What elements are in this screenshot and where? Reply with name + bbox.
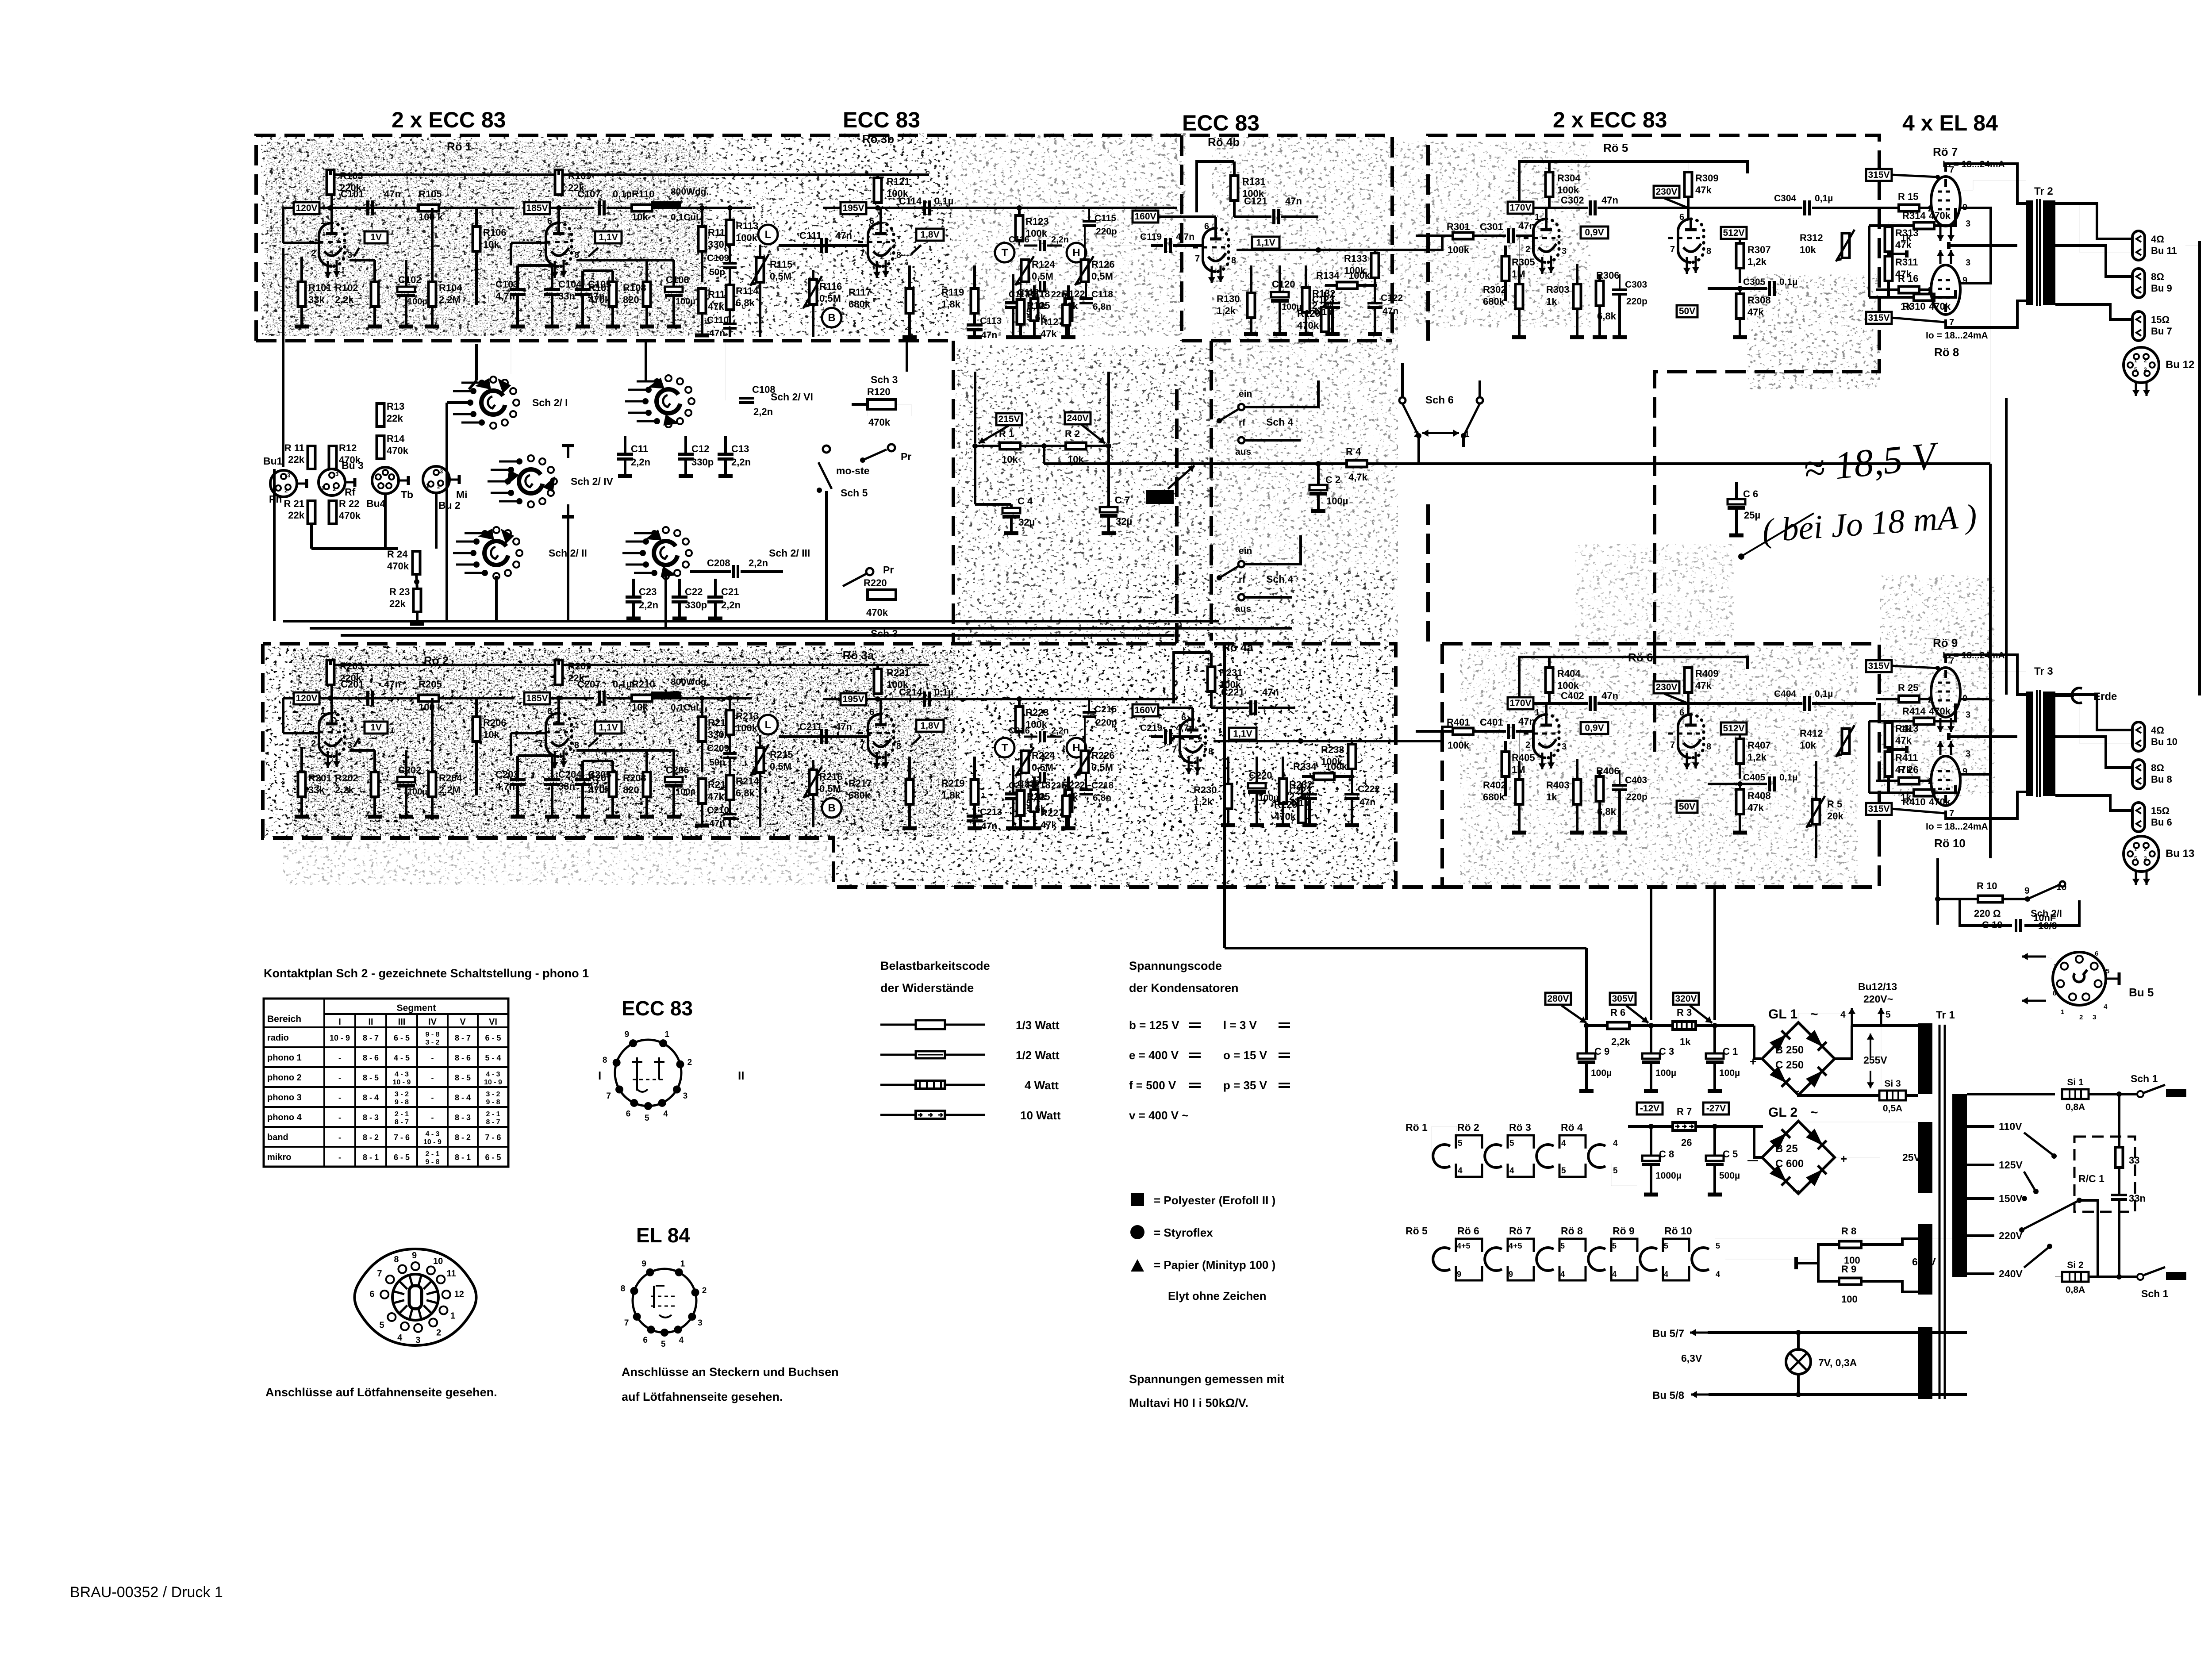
rotary switch Sch 2/VI	[657, 389, 680, 413]
capacitor C11	[617, 453, 633, 456]
dashed box Ro5/Ro6 left wall	[1428, 135, 1879, 341]
resistor R118	[1031, 299, 1038, 321]
resistor R413	[1885, 722, 1893, 747]
switch Sch1 bottom	[2137, 1274, 2143, 1280]
svg-text:C 600: C 600	[1775, 1158, 1804, 1170]
svg-text:0,1µ: 0,1µ	[1291, 798, 1309, 808]
triode Ro3b	[868, 223, 881, 266]
svg-text:10 - 9: 10 - 9	[423, 1138, 442, 1146]
svg-text:10k: 10k	[1800, 244, 1816, 255]
svg-text:C405: C405	[1743, 772, 1766, 783]
triode Ro2 first half	[319, 713, 332, 757]
triode Ro6 second	[1678, 715, 1691, 758]
svg-text:0,5M: 0,5M	[1032, 271, 1053, 282]
resistor R133	[1371, 253, 1379, 278]
svg-text:7: 7	[1670, 740, 1675, 750]
svg-text:C108: C108	[752, 384, 776, 395]
svg-text:Bu 13: Bu 13	[2166, 848, 2194, 860]
svg-text:C305: C305	[1743, 277, 1766, 287]
svg-text:5: 5	[1509, 1139, 1514, 1148]
svg-text:R412: R412	[1800, 728, 1823, 739]
svg-text:R307: R307	[1747, 244, 1771, 255]
svg-text:R115: R115	[770, 259, 792, 270]
svg-text:R133: R133	[1344, 253, 1367, 264]
svg-text:47n: 47n	[1359, 797, 1375, 807]
svg-text:4: 4	[397, 1333, 403, 1343]
svg-text:C11: C11	[631, 443, 648, 454]
svg-text:250V: 250V	[1149, 492, 1171, 502]
potentiometer R126	[1081, 260, 1089, 282]
svg-text:Elyt ohne Zeichen: Elyt ohne Zeichen	[1168, 1289, 1267, 1303]
svg-text:6 - 5: 6 - 5	[485, 1034, 501, 1042]
svg-text:R204: R204	[439, 772, 462, 784]
svg-text:1: 1	[426, 482, 429, 489]
svg-text:100µ: 100µ	[1719, 1068, 1740, 1078]
svg-text:0,9V: 0,9V	[1585, 723, 1604, 733]
svg-text:-: -	[431, 1053, 434, 1062]
svg-text:R205: R205	[419, 679, 442, 690]
svg-text:3: 3	[1966, 219, 1970, 229]
resistor R303	[1574, 284, 1581, 309]
svg-text:0,5M: 0,5M	[819, 293, 841, 304]
svg-text:280V: 280V	[1547, 994, 1569, 1004]
svg-text:5: 5	[2134, 855, 2137, 861]
svg-text:2: 2	[333, 486, 336, 492]
dashed box Ro1 bottom edge	[256, 339, 953, 342]
resistor R308	[1736, 294, 1744, 319]
svg-text:-: -	[431, 1093, 434, 1102]
resistor R221	[874, 669, 882, 694]
svg-text:C121: C121	[1244, 196, 1267, 207]
resistor R6	[1607, 1022, 1629, 1029]
voltage 215V	[996, 413, 1022, 425]
connector Bu 13	[2124, 836, 2159, 872]
triode Ro4a	[1180, 719, 1193, 763]
svg-text:Kontaktplan Sch 2 - gezeich: Kontaktplan Sch 2 - gezeichnete Schaltst…	[264, 967, 589, 980]
resistor R1	[1000, 443, 1020, 450]
svg-text:C 10: C 10	[1982, 919, 2002, 930]
svg-text:C110: C110	[707, 315, 729, 325]
svg-text:6: 6	[869, 216, 874, 226]
wire plate2	[1946, 301, 2026, 327]
svg-text:1: 1	[320, 707, 325, 716]
capacitor C210	[723, 813, 737, 815]
svg-text:8 - 3: 8 - 3	[455, 1113, 471, 1122]
resistor R108	[643, 282, 651, 307]
potentiometer R5 lower	[1813, 799, 1820, 824]
svg-text:C222: C222	[1358, 784, 1380, 794]
wire R105 to right	[439, 697, 515, 699]
wire long rail 250V	[1044, 462, 1990, 465]
wire top loop Ro4b	[1197, 161, 1234, 212]
capacitor C6	[1735, 482, 1738, 499]
svg-text:4+5: 4+5	[1509, 1241, 1522, 1250]
letter circle T	[995, 738, 1014, 757]
capacitor C101	[366, 200, 369, 215]
svg-text:Io = 18...24mA: Io = 18...24mA	[1926, 822, 1988, 832]
coil 800Wdg	[651, 692, 681, 697]
switch Sch3 upper: resistor R120	[868, 400, 896, 409]
svg-text:8 - 4: 8 - 4	[363, 1093, 379, 1102]
svg-text:100µ: 100µ	[1655, 1068, 1676, 1078]
svg-text:25V: 25V	[1902, 1152, 1921, 1163]
capacitor C103	[510, 288, 526, 291]
svg-text:6,8k: 6,8k	[1597, 806, 1617, 817]
svg-text:6: 6	[1204, 222, 1209, 231]
svg-text:C120: C120	[1272, 279, 1295, 290]
svg-text:GL 1: GL 1	[1768, 1007, 1797, 1022]
svg-text:Bu 10: Bu 10	[2151, 736, 2177, 747]
capacitor C108	[739, 397, 754, 400]
svg-text:3: 3	[2093, 1014, 2096, 1021]
svg-text:0,8A: 0,8A	[2066, 1285, 2085, 1295]
svg-text:820: 820	[623, 784, 639, 795]
svg-text:0,1CuL: 0,1CuL	[671, 212, 702, 223]
resistor R301 input	[1453, 233, 1473, 239]
svg-text:9 - 8: 9 - 8	[425, 1031, 439, 1038]
svg-text:500µ: 500µ	[1719, 1171, 1740, 1181]
label 2-1 arrows	[1422, 432, 1442, 434]
voltage 120V	[294, 202, 319, 214]
voltage 160V	[1133, 211, 1158, 223]
svg-text:8 - 6: 8 - 6	[455, 1053, 471, 1062]
svg-text:8Ω: 8Ω	[2151, 271, 2164, 282]
svg-text:10k: 10k	[1800, 740, 1816, 751]
svg-text:0,1CuL: 0,1CuL	[671, 703, 702, 713]
svg-text:C210: C210	[707, 805, 729, 815]
svg-text:R301: R301	[1447, 221, 1470, 232]
dashed box Ro2/Ro3a/Ro4a band	[263, 644, 1396, 887]
svg-text:Rö 10: Rö 10	[1934, 837, 1966, 850]
capacitor C118	[1079, 297, 1093, 300]
svg-text:R216: R216	[819, 771, 843, 782]
svg-text:100µ: 100µ	[1326, 496, 1348, 507]
voltage 50V	[1677, 801, 1697, 813]
dashed wall x2738	[1210, 341, 1213, 641]
svg-text:47n: 47n	[981, 330, 997, 340]
voltage 315V top	[1866, 169, 1892, 181]
resistor R 15	[1899, 205, 1919, 211]
svg-text:Bu4: Bu4	[366, 498, 386, 509]
svg-text:3: 3	[335, 471, 338, 477]
dashed box Ro1/Ro3b outline	[256, 135, 1392, 341]
svg-text:C22: C22	[685, 586, 703, 597]
letter circle H	[1067, 738, 1086, 757]
svg-text:R231: R231	[1219, 667, 1243, 678]
svg-text:3: 3	[683, 1091, 688, 1101]
svg-text:100µ: 100µ	[676, 787, 695, 797]
svg-text:R 25: R 25	[1898, 682, 1918, 693]
svg-text:IV: IV	[428, 1017, 437, 1027]
wire Bu1 input drop	[282, 248, 284, 467]
dashed box Ro5 bottom partial	[1426, 504, 1430, 644]
wire GL1 top to Tr1	[1798, 1013, 1852, 1022]
svg-text:470k: 470k	[866, 607, 888, 618]
svg-text:C223: C223	[1289, 786, 1311, 796]
svg-text:1M: 1M	[1512, 764, 1525, 775]
svg-text:8: 8	[603, 1056, 607, 1065]
svg-text:1: 1	[321, 485, 324, 492]
resistor R414 horizontal	[1914, 718, 1934, 725]
wire to Ro3 grid	[779, 698, 929, 699]
svg-text:6: 6	[2095, 950, 2098, 957]
svg-text:10 Watt: 10 Watt	[1020, 1109, 1061, 1122]
wire Bu5 tails	[2106, 978, 2119, 980]
svg-text:470k: 470k	[1297, 320, 1319, 331]
capacitor C207	[598, 691, 601, 706]
svg-text:= Papier (Minityp 100 ): = Papier (Minityp 100 )	[1154, 1258, 1275, 1272]
svg-text:ein: ein	[1239, 389, 1252, 399]
voltage 0,9V	[1581, 722, 1608, 734]
svg-text:R 24: R 24	[387, 549, 408, 560]
svg-text:240V: 240V	[1067, 413, 1088, 423]
svg-text:R101: R101	[308, 282, 332, 293]
svg-text:47k: 47k	[1747, 307, 1764, 318]
svg-text:5: 5	[661, 1340, 666, 1349]
capacitor C208	[732, 565, 735, 578]
svg-text:R403: R403	[1546, 780, 1570, 791]
capacitor C206 electrolytic	[665, 777, 683, 782]
resistor R119	[971, 288, 979, 313]
svg-text:R221: R221	[887, 667, 910, 678]
svg-text:15Ω: 15Ω	[2151, 314, 2170, 325]
wire cathode drop	[349, 259, 375, 261]
annotation arrow line	[1743, 513, 1814, 555]
connector Bu2	[423, 466, 449, 493]
svg-text:6,3V: 6,3V	[1681, 1352, 1702, 1364]
svg-text:1V: 1V	[370, 232, 382, 242]
svg-text:R409: R409	[1695, 668, 1719, 679]
potentiometer R116	[810, 280, 817, 304]
svg-text:R 4: R 4	[1346, 446, 1361, 457]
svg-text:8: 8	[621, 1284, 626, 1293]
svg-text:9: 9	[2024, 886, 2030, 896]
svg-text:Io = 18...24mA: Io = 18...24mA	[1926, 330, 1988, 341]
letter circle H	[1067, 243, 1086, 262]
resistor R406	[1596, 776, 1604, 801]
svg-text:8: 8	[1231, 256, 1236, 265]
svg-text:2,2n: 2,2n	[721, 599, 741, 611]
svg-text:3: 3	[1966, 258, 1970, 268]
capacitor C212	[1005, 792, 1021, 795]
svg-text:der Kondensatoren: der Kondensatoren	[1129, 981, 1239, 995]
svg-text:6: 6	[547, 707, 552, 716]
svg-text:7: 7	[538, 249, 543, 258]
svg-text:T: T	[1002, 742, 1008, 754]
svg-text:100k: 100k	[1448, 740, 1470, 751]
resistor R206	[473, 717, 480, 742]
resistor R225	[1017, 791, 1025, 815]
svg-text:7 - 6: 7 - 6	[485, 1133, 501, 1142]
svg-text:5: 5	[2134, 366, 2137, 373]
svg-text:1k: 1k	[1901, 723, 1912, 734]
svg-text:220V: 220V	[1999, 1230, 2023, 1241]
svg-text:R118: R118	[1027, 288, 1050, 300]
voltage 1V box	[365, 231, 388, 243]
svg-text:R408: R408	[1747, 790, 1771, 801]
svg-text:C 7: C 7	[1115, 495, 1130, 506]
svg-text:160V: 160V	[1134, 705, 1156, 715]
svg-text:12: 12	[454, 1290, 464, 1299]
svg-text:Sch 2/ IV: Sch 2/ IV	[571, 476, 614, 487]
svg-text:7: 7	[606, 1091, 611, 1101]
svg-text:C218: C218	[1091, 780, 1114, 791]
wire screens join	[1961, 208, 1991, 283]
svg-text:32µ: 32µ	[1116, 516, 1132, 527]
svg-text:470k: 470k	[588, 294, 611, 305]
svg-text:R207: R207	[588, 772, 612, 784]
svg-text:C301: C301	[1480, 221, 1503, 232]
resistor R202	[371, 772, 379, 797]
svg-text:aus: aus	[1235, 447, 1251, 457]
svg-text:4 - 5: 4 - 5	[394, 1053, 410, 1062]
triode Ro2 second half	[546, 713, 559, 757]
svg-text:20k: 20k	[1827, 811, 1843, 822]
svg-text:330p: 330p	[691, 457, 714, 468]
resistor R204	[429, 772, 436, 797]
svg-text:3: 3	[1966, 749, 1970, 759]
resistor R311	[1885, 256, 1893, 281]
capacitor C223	[1302, 793, 1317, 795]
svg-text:4 - 3: 4 - 3	[425, 1130, 439, 1138]
svg-text:R127: R127	[1041, 316, 1064, 327]
svg-text:2,2n: 2,2n	[631, 457, 650, 468]
resistor R403	[1574, 780, 1581, 804]
wire R24-R23	[416, 574, 417, 589]
svg-text:47k: 47k	[1695, 680, 1712, 691]
capacitor C109	[723, 262, 737, 265]
resistor R210	[632, 695, 652, 702]
svg-text:R113: R113	[736, 220, 758, 231]
resistor R203	[327, 660, 334, 685]
svg-text:0,1µ: 0,1µ	[1779, 772, 1797, 783]
svg-text:R 16: R 16	[1898, 273, 1918, 284]
svg-text:0,1µ: 0,1µ	[1815, 689, 1833, 699]
coil 800Wdg	[651, 201, 681, 207]
wire heater row2 rail	[1715, 1238, 1967, 1239]
svg-text:125V: 125V	[1999, 1159, 2023, 1171]
dashed box Ro4b left wall	[1180, 135, 1183, 341]
resistor R309	[1685, 172, 1692, 197]
svg-text:220 Ω: 220 Ω	[1974, 908, 2001, 919]
svg-text:8 - 7: 8 - 7	[486, 1118, 500, 1126]
svg-text:100k: 100k	[1448, 244, 1470, 255]
svg-text:Pr: Pr	[883, 564, 894, 576]
svg-text:100k: 100k	[1557, 184, 1579, 196]
svg-text:C122: C122	[1381, 293, 1403, 303]
svg-text:C213: C213	[980, 807, 1002, 817]
triode Ro6 first	[1533, 715, 1546, 758]
svg-text:Multavi H0 I i 50kΩ/V.: Multavi H0 I i 50kΩ/V.	[1129, 1396, 1248, 1410]
capacitor C405	[1768, 776, 1771, 791]
svg-text:47n: 47n	[835, 721, 852, 732]
resistor R408	[1736, 789, 1744, 814]
svg-text:170V: 170V	[1509, 203, 1531, 213]
svg-text:47n: 47n	[709, 818, 725, 829]
svg-text:33n: 33n	[558, 291, 575, 302]
capacitor C3	[1650, 1026, 1652, 1053]
table Kontaktplan	[264, 999, 508, 1167]
svg-text:Si 2: Si 2	[2067, 1260, 2083, 1270]
EL84 internal scribble	[653, 1286, 655, 1308]
svg-text:R134: R134	[1316, 270, 1340, 281]
svg-text:f = 500 V: f = 500 V	[1129, 1079, 1176, 1092]
svg-text:4,7n: 4,7n	[1176, 232, 1194, 242]
svg-text:33k: 33k	[308, 294, 325, 305]
svg-text:der Widerstände: der Widerstände	[880, 981, 974, 995]
svg-text:680k: 680k	[1483, 791, 1505, 803]
svg-text:R121: R121	[887, 176, 910, 187]
svg-text:230V: 230V	[1655, 187, 1677, 197]
svg-text:C402: C402	[1561, 690, 1584, 701]
resistor R306	[1596, 281, 1604, 306]
svg-text:Bu 5: Bu 5	[2129, 986, 2154, 999]
svg-text:R 6: R 6	[1610, 1007, 1625, 1018]
svg-text:2,2n: 2,2n	[731, 457, 751, 468]
svg-text:~: ~	[1810, 1105, 1818, 1120]
resistor R409	[1685, 668, 1692, 692]
arrow 320V	[1690, 1006, 1712, 1023]
wire Ro4a to R401	[1214, 727, 1453, 741]
svg-text:R226: R226	[1091, 750, 1115, 761]
heater chain row1 wiring	[1432, 1126, 1457, 1156]
resistor R12	[329, 446, 337, 469]
svg-text:Rö 9: Rö 9	[1613, 1225, 1635, 1237]
voltage 512V	[1721, 722, 1747, 734]
svg-text:2: 2	[1525, 740, 1530, 750]
svg-text:R107: R107	[588, 282, 612, 293]
svg-text:1,2k: 1,2k	[1217, 305, 1236, 316]
svg-text:8 - 2: 8 - 2	[455, 1133, 471, 1142]
resistor R132	[1302, 288, 1310, 312]
svg-text:26: 26	[1681, 1137, 1692, 1148]
svg-text:R206: R206	[483, 717, 507, 728]
svg-text:R13: R13	[387, 401, 404, 412]
svg-text:Sch 2/ III: Sch 2/ III	[769, 547, 810, 559]
svg-text:Sch 4: Sch 4	[1266, 573, 1294, 585]
svg-text:Bu1: Bu1	[263, 455, 283, 467]
svg-text:C 250: C 250	[1775, 1059, 1804, 1071]
svg-text:-: -	[338, 1113, 341, 1122]
wire top loop Ro5	[1519, 161, 1747, 208]
svg-text:4,7k: 4,7k	[1348, 472, 1368, 483]
resistor R2	[1066, 443, 1086, 450]
wire grid2	[511, 242, 546, 244]
svg-text:195V: 195V	[842, 694, 864, 704]
capacitor C113	[967, 323, 983, 327]
svg-text:3 - 2: 3 - 2	[395, 1091, 409, 1098]
transformer Tr1 core	[1939, 1025, 1941, 1399]
svg-text:47k: 47k	[708, 301, 724, 312]
capacitor C402	[1589, 696, 1592, 711]
svg-text:0,5M: 0,5M	[1091, 762, 1113, 773]
resistor R405	[1502, 752, 1509, 776]
resistor R229	[1298, 798, 1306, 823]
svg-text:8 - 3: 8 - 3	[363, 1113, 379, 1122]
voltage 315V bottom	[1866, 312, 1892, 324]
svg-text:1: 1	[1535, 212, 1540, 222]
svg-text:R215: R215	[770, 749, 793, 760]
svg-text:0,1µ: 0,1µ	[934, 687, 953, 698]
svg-text:50p: 50p	[709, 267, 725, 277]
svg-text:C103: C103	[495, 279, 519, 290]
svg-text:R 2: R 2	[1065, 428, 1080, 439]
svg-text:4 - 3: 4 - 3	[486, 1071, 500, 1078]
wire junction R313/R311	[1889, 748, 1907, 751]
jack Bu 6	[2132, 803, 2145, 832]
wire top loop Ro6	[1519, 657, 1747, 703]
resistor R130	[1248, 293, 1255, 318]
